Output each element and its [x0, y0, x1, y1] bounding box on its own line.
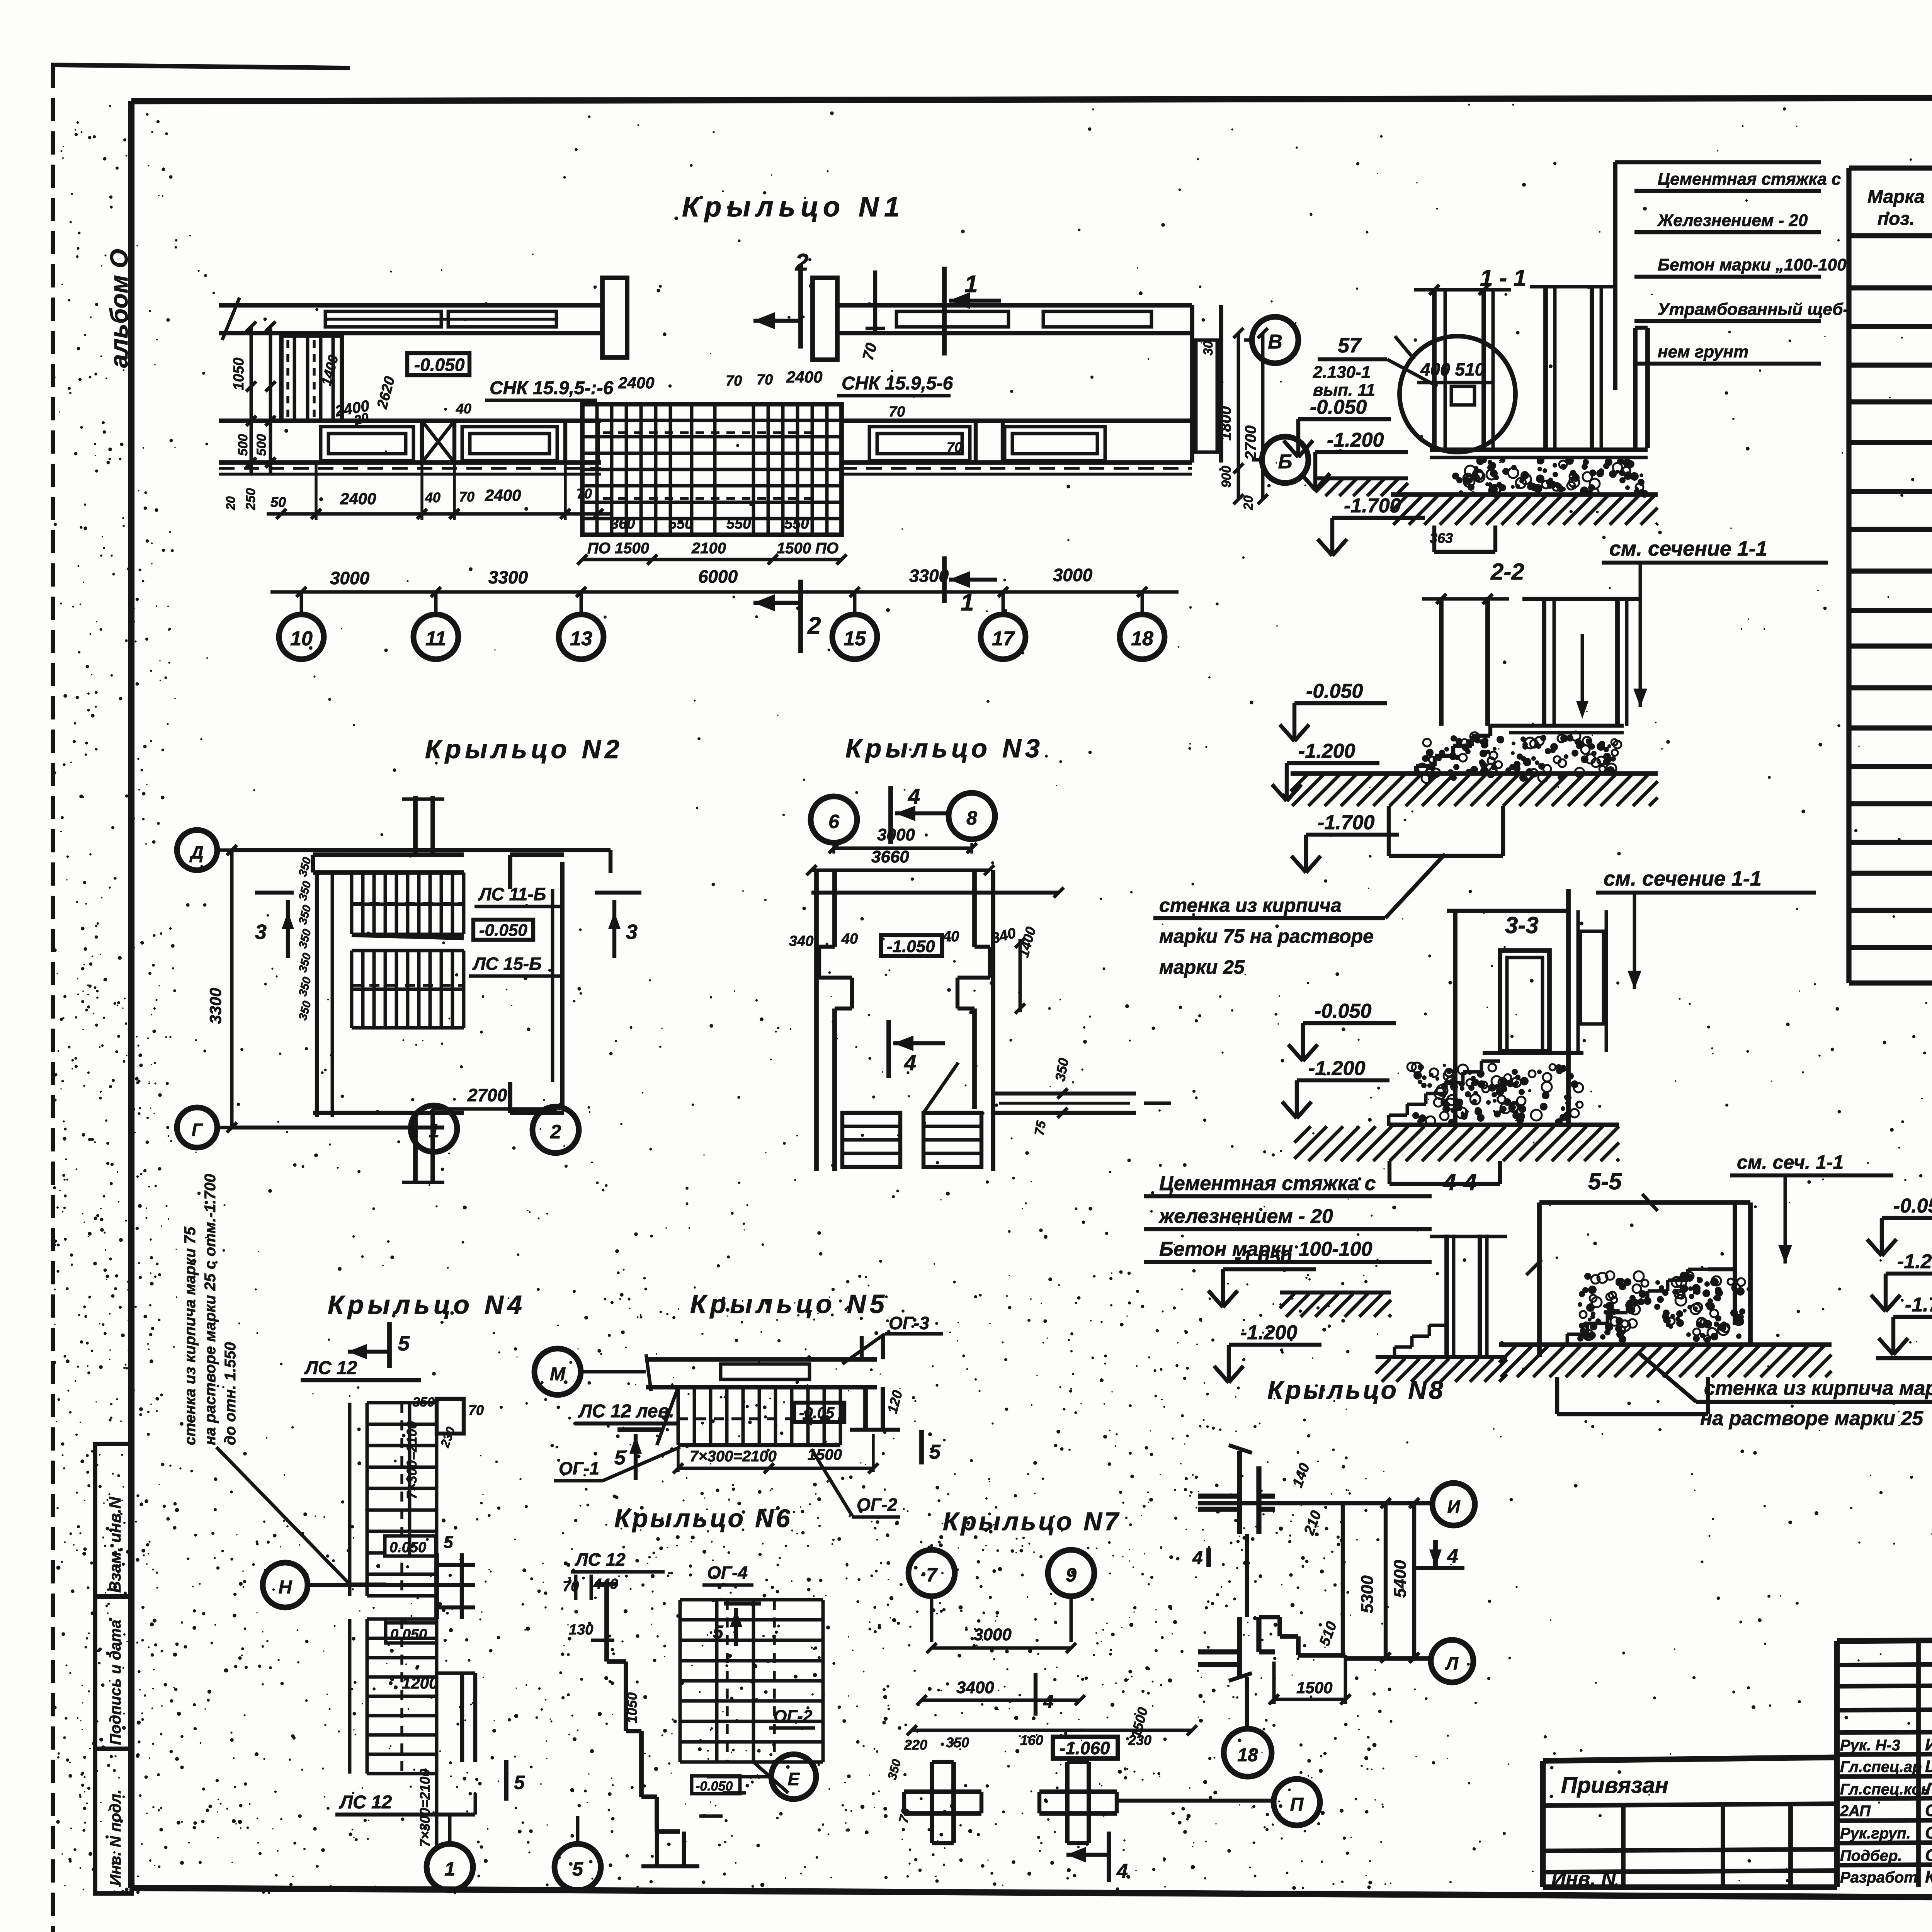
section 4-4 elevation -1.050	[1208, 1246, 1316, 1307]
N4 stair column lower	[350, 1619, 475, 1774]
label Крыльцо N4	[328, 1290, 526, 1320]
svg-text:поз.: поз.	[1878, 209, 1915, 229]
N2 wall stem top	[402, 796, 444, 855]
N1 section mark 1 bottom	[944, 556, 997, 616]
N6 stair block	[680, 1600, 823, 1762]
svg-text:350: 350	[296, 1000, 314, 1022]
svg-text:2: 2	[807, 612, 821, 639]
svg-text:8: 8	[966, 807, 977, 829]
N8 grid circle Л	[1431, 1640, 1473, 1682]
svg-text:70: 70	[889, 404, 905, 420]
N2 section mark 3 right	[595, 893, 641, 958]
N5 right end wall	[850, 1387, 905, 1430]
svg-text:-0.050: -0.050	[1315, 1000, 1372, 1022]
N1 central stair block	[582, 404, 842, 535]
svg-text:до отн. 1.550: до отн. 1.550	[222, 1342, 239, 1445]
svg-text:3000: 3000	[974, 1625, 1012, 1644]
N3 dim 3000	[829, 825, 977, 854]
svg-text:350: 350	[413, 1395, 435, 1410]
svg-text:70: 70	[757, 372, 773, 388]
N6 label ОГ-2 and leader	[753, 1707, 815, 1793]
N1 right end wall	[1192, 305, 1221, 463]
section 4-4 hatch stub	[1280, 1293, 1391, 1317]
svg-text:3400: 3400	[956, 1678, 994, 1697]
svg-text:1: 1	[964, 271, 978, 298]
section 5-5 foundation box	[1557, 1377, 1708, 1414]
section 1-1 foundation box and 363	[1430, 526, 1495, 552]
svg-text:17: 17	[992, 628, 1015, 650]
N2 bottom dim 2700	[429, 1085, 561, 1114]
N3 right wall	[957, 870, 993, 1171]
svg-text:-1.050: -1.050	[887, 937, 935, 956]
section 2-2 left wall	[1422, 594, 1509, 726]
svg-text:11: 11	[425, 628, 446, 650]
N8 axis line to Л	[1345, 1656, 1429, 1661]
svg-text:3000: 3000	[877, 825, 915, 844]
N7 small dims	[885, 1732, 1151, 1825]
N7 dim 3400 with section 4	[917, 1673, 1085, 1716]
Привязан box	[1543, 1757, 1837, 1890]
svg-text:7: 7	[926, 1564, 938, 1586]
section 3-3 ground hatch	[1294, 1126, 1619, 1161]
section 3-3 elevation -1.200	[1282, 1057, 1389, 1118]
N5 section mark 5	[614, 1430, 663, 1480]
svg-text:2АП: 2АП	[1840, 1803, 1871, 1820]
svg-text:см. сеч. 1-1: см. сеч. 1-1	[1737, 1151, 1844, 1173]
N6 top label ЛС12	[563, 1549, 665, 1600]
N1 inner dims 2400/70	[333, 368, 962, 455]
svg-text:-0.050: -0.050	[414, 355, 465, 375]
section 1-1 left hatch stub	[1315, 478, 1408, 496]
svg-text:-0.050: -0.050	[479, 921, 527, 940]
svg-text:1200: 1200	[402, 1674, 438, 1692]
N4 grid circle 1 bottom	[427, 1816, 473, 1890]
N2 grid circle 2	[532, 1107, 579, 1153]
svg-text:13: 13	[570, 628, 592, 650]
cement screed note (top, 5 underlined lines)	[1615, 162, 1849, 390]
N5 grid circle М	[534, 1349, 646, 1395]
svg-text:120: 120	[884, 1388, 905, 1415]
N1 CHK labels	[485, 373, 953, 400]
N7 grid circle 7	[908, 1550, 955, 1642]
svg-text:Рук.груп.: Рук.груп.	[1840, 1825, 1911, 1842]
N1 section mark 2 bottom	[753, 580, 821, 653]
svg-text:Взам. инв.N: Взам. инв.N	[106, 1496, 124, 1593]
specification table header	[1867, 182, 1932, 233]
svg-text:4: 4	[908, 784, 920, 808]
svg-text:ОГ-3: ОГ-3	[889, 1313, 929, 1333]
brick wall note (right of N3)	[1153, 854, 1445, 978]
svg-text:Либгонан: Либгонан	[1924, 1779, 1932, 1798]
N6 bottom steps	[641, 1793, 746, 1866]
svg-text:70: 70	[459, 489, 474, 505]
svg-text:340: 340	[789, 933, 813, 949]
svg-text:Штейнберг: Штейнберг	[1925, 1757, 1932, 1776]
N1 top wall band left	[219, 298, 601, 340]
N7 grid circle 9	[1048, 1550, 1094, 1642]
svg-text:2.130-1: 2.130-1	[1313, 363, 1371, 382]
N8 section mark 4 left	[1192, 1548, 1209, 1568]
svg-text:363: 363	[1430, 530, 1453, 546]
svg-text:ОГ-4: ОГ-4	[707, 1563, 748, 1583]
svg-text:2400: 2400	[618, 374, 654, 392]
handwritten album note (rotated) at top-left margin	[105, 249, 133, 368]
see section note 2 (см. сечение 1-1)	[1596, 867, 1816, 989]
section 2-2 steps and concrete	[1414, 726, 1624, 783]
N5 stair grid horizontal	[657, 1387, 840, 1445]
section 3-3 elevation -0.050	[1288, 1000, 1396, 1061]
svg-text:9: 9	[1066, 1564, 1077, 1586]
N2 grid circle Г	[177, 1107, 232, 1148]
svg-text:ЛС 12: ЛС 12	[339, 1792, 392, 1813]
N8 section mark 4 right	[1414, 1540, 1464, 1568]
N1 section mark 2 top	[753, 249, 808, 349]
svg-text:7×300=2100: 7×300=2100	[404, 1421, 420, 1499]
N5 label ОГ-1	[554, 1447, 680, 1481]
N6 grid circle Е	[707, 1754, 816, 1799]
svg-text:СНК 15.9,5-:-6: СНК 15.9,5-:-6	[490, 378, 614, 398]
N2 right walls	[510, 850, 611, 1113]
svg-text:70: 70	[577, 486, 592, 502]
N1 bottom wall band right with openings	[842, 421, 1192, 474]
svg-text:Соган: Соган	[1925, 1801, 1932, 1820]
svg-text:нем грунт: нем грунт	[1658, 342, 1748, 361]
N1 left vertical dim chain	[224, 321, 276, 510]
svg-text:Бетон марки „100-100: Бетон марки „100-100	[1658, 255, 1847, 274]
svg-text:350: 350	[296, 856, 314, 878]
svg-text:2700: 2700	[467, 1085, 507, 1105]
N7 dim 3000	[927, 1625, 1076, 1653]
svg-text:1: 1	[444, 1858, 455, 1880]
section 1-1 slab and concrete	[1430, 450, 1648, 498]
svg-text:0.050: 0.050	[390, 1626, 427, 1643]
see section note 1 (см. сечение 1-1)	[1602, 537, 1828, 707]
svg-text:Б: Б	[1278, 451, 1293, 473]
svg-text:20: 20	[1241, 495, 1256, 510]
svg-text:5: 5	[398, 1332, 410, 1355]
svg-text:3660: 3660	[871, 847, 909, 866]
section 3-3 walls and door	[1447, 889, 1606, 1126]
N8 dim 1500	[1269, 1655, 1350, 1704]
svg-text:50: 50	[270, 494, 286, 510]
svg-text:Крыльцо N4: Крыльцо N4	[328, 1290, 526, 1320]
svg-text:5: 5	[929, 1441, 941, 1463]
brick wall note (under section 5-5)	[1638, 1352, 1932, 1430]
svg-text:Разработ: Разработ	[1840, 1869, 1918, 1886]
label Крыльцо N3	[845, 734, 1044, 763]
svg-text:Рук. Н-3: Рук. Н-3	[1840, 1737, 1900, 1754]
N8 rotated dim 510	[1316, 1619, 1340, 1648]
section 5-5 steps and concrete	[1499, 1269, 1832, 1345]
section 5-5 outline	[1526, 1194, 1750, 1357]
section 2-2 elevation -1.700	[1291, 811, 1399, 872]
svg-text:3: 3	[626, 920, 638, 944]
svg-text:3-3: 3-3	[1505, 912, 1539, 938]
N5 top wall band	[646, 1336, 883, 1391]
section 5-5 elevation -1.700	[1879, 1294, 1932, 1355]
N8 grid circle 18	[1224, 1729, 1272, 1777]
svg-text:15: 15	[844, 628, 866, 650]
N8 central axis vertical line	[1245, 1534, 1249, 1617]
svg-text:Подбер.: Подбер.	[1840, 1847, 1902, 1864]
svg-text:4: 4	[1116, 1860, 1128, 1883]
svg-text:2700: 2700	[1242, 425, 1259, 460]
section 1-1 right railing posts	[1530, 286, 1648, 450]
svg-text:500: 500	[236, 434, 250, 456]
svg-text:1050: 1050	[624, 1692, 640, 1723]
N8 grid circle И	[1432, 1483, 1475, 1526]
svg-text:2: 2	[795, 249, 808, 276]
N1 T-column left	[602, 278, 627, 357]
svg-text:альбом О: альбом О	[105, 249, 133, 368]
section 2-2 elevation -0.050	[1280, 680, 1387, 741]
svg-text:1500: 1500	[1296, 1679, 1332, 1697]
svg-text:марки 25: марки 25	[1159, 956, 1245, 978]
svg-text:210: 210	[1301, 1509, 1325, 1537]
N5 label ОГ-2 leader	[811, 1449, 900, 1517]
N1 grid circle В	[1244, 317, 1298, 363]
N5 bottom dims 7x300=2100 1500	[673, 1434, 878, 1473]
label Крыльцо N2	[425, 735, 623, 764]
svg-text:3000: 3000	[1053, 565, 1093, 585]
label Крыльцо N1	[682, 192, 905, 223]
svg-text:500: 500	[254, 434, 269, 456]
svg-text:ПО 1500: ПО 1500	[587, 540, 649, 557]
svg-text:Гл.спец.ар: Гл.спец.ар	[1840, 1759, 1922, 1776]
N2 labels ЛС11-Б -0.050 ЛС15-Б	[469, 884, 560, 976]
N8 rotated dims 140 210	[1289, 1461, 1325, 1537]
svg-text:350: 350	[885, 1758, 904, 1781]
svg-text:СНК 15.9,5-6: СНК 15.9,5-6	[842, 373, 953, 394]
N3 dims 340 40 40 340 1400	[789, 925, 1039, 1014]
N2 tread dims column	[296, 856, 314, 1022]
svg-text:Е: Е	[788, 1769, 800, 1789]
N7 connecting line to П	[1117, 1799, 1274, 1803]
svg-text:550: 550	[726, 516, 751, 532]
N8 vertical dim lines	[1343, 1498, 1419, 1663]
svg-text:стенка из кирпича: стенка из кирпича	[1159, 895, 1342, 916]
svg-text:В: В	[1268, 331, 1282, 353]
svg-text:550: 550	[668, 516, 693, 532]
N1 left stair block	[281, 335, 398, 428]
section 2-2 elevation -1.200	[1272, 740, 1379, 801]
svg-text:Инв. N: Инв. N	[1551, 1868, 1616, 1890]
label Крыльцо N5	[690, 1289, 888, 1319]
N1 bottom dim chain small	[267, 463, 612, 520]
svg-text:ЛС 12 лев.: ЛС 12 лев.	[578, 1401, 674, 1422]
svg-text:350: 350	[296, 976, 314, 998]
svg-text:5: 5	[514, 1772, 525, 1793]
svg-text:2-2: 2-2	[1490, 559, 1524, 585]
svg-text:5400: 5400	[1391, 1560, 1410, 1598]
N4 grid circle Н	[263, 1563, 308, 1607]
N4 mid cross junction	[308, 1533, 475, 1619]
N4 stair column upper	[350, 1395, 484, 1596]
N3 grid circle 8	[949, 793, 995, 839]
left margin stamp box Инв.N подл.	[95, 1749, 132, 1893]
label 2-2	[1490, 559, 1524, 585]
svg-text:ЛС 11-Б: ЛС 11-Б	[478, 884, 546, 904]
svg-text:2400: 2400	[340, 490, 376, 508]
N1 stair bottom dim ПО 1500 2100 1500	[577, 540, 847, 565]
svg-text:0.050: 0.050	[389, 1539, 426, 1556]
left margin stamp box Взам.инв.N	[95, 1444, 132, 1597]
svg-text:40: 40	[942, 929, 959, 945]
N3 top wall	[811, 888, 1064, 898]
svg-text:2400: 2400	[485, 486, 521, 504]
svg-text:4: 4	[1192, 1548, 1203, 1568]
svg-text:-1.200: -1.200	[1240, 1321, 1298, 1344]
N5 ograждение ОГ-3 label	[842, 1313, 943, 1364]
N3 grid circle 6	[811, 796, 857, 843]
title block outer frame	[1837, 1636, 1932, 1887]
svg-text:ЛС 15-Б: ЛС 15-Б	[472, 954, 542, 974]
label 4-4	[1443, 1169, 1477, 1195]
svg-text:3300: 3300	[488, 567, 528, 587]
svg-text:-1.200: -1.200	[1298, 740, 1355, 762]
svg-text:7×300=2100: 7×300=2100	[690, 1448, 777, 1465]
N8 bottom cross column	[1198, 1617, 1345, 1681]
section 1-1 left wall	[1414, 285, 1511, 450]
label Крыльцо N7	[943, 1507, 1121, 1536]
specification table grid	[1849, 168, 1932, 983]
left margin stamp box Подпись и дата	[95, 1597, 132, 1749]
svg-text:П: П	[1290, 1794, 1304, 1815]
svg-text:Подпись и дата: Подпись и дата	[107, 1620, 124, 1745]
N7 section mark 4 bottom	[1066, 1832, 1128, 1883]
svg-text:360: 360	[611, 516, 635, 532]
N8 top cross column	[1198, 1445, 1275, 1534]
section 2-2 foundation box	[1389, 806, 1503, 856]
N8 leader to circle 18	[1245, 1677, 1249, 1728]
section 2-2 right railing posts	[1522, 599, 1642, 726]
cement screed note (middle, 3 underlined lines)	[1144, 1172, 1432, 1262]
svg-text:3: 3	[255, 920, 267, 944]
N2 grid circle Д	[177, 830, 232, 870]
N4 left dim chain rotated	[404, 1403, 437, 1847]
N4 section mark 5 bottom	[506, 1760, 525, 1801]
N6 left zigzag wall	[569, 1584, 680, 1832]
N6 rotated dim 1050	[624, 1692, 640, 1723]
svg-text:Цементная стяжка с: Цементная стяжка с	[1658, 170, 1841, 189]
N4 bottom label ЛС12	[335, 1792, 475, 1815]
N4 label ЛС12 top	[301, 1358, 421, 1380]
svg-text:на растворе марки 25 с отм.-1.: на растворе марки 25 с отм.-1.700	[202, 1174, 219, 1445]
svg-text:6000: 6000	[698, 566, 738, 587]
svg-text:7×300=2100: 7×300=2100	[417, 1769, 433, 1847]
label 3-3	[1505, 912, 1539, 938]
N7 left cross column	[904, 1762, 981, 1843]
svg-text:70: 70	[726, 373, 742, 389]
svg-text:Инв. N подл.: Инв. N подл.	[107, 1789, 124, 1886]
svg-text:350: 350	[296, 904, 314, 926]
svg-text:Крыльцо N3: Крыльцо N3	[845, 734, 1044, 763]
svg-text:40: 40	[456, 401, 471, 417]
N7 grid circle П	[1274, 1779, 1320, 1825]
N3 bottom stair treads	[842, 1063, 981, 1167]
svg-text:ЛС 12: ЛС 12	[575, 1549, 626, 1570]
svg-text:2620: 2620	[374, 375, 398, 411]
svg-text:ОГ-2: ОГ-2	[774, 1707, 813, 1726]
svg-text:230: 230	[437, 1425, 458, 1450]
svg-text:Гл.спец.кон: Гл.спец.кон	[1840, 1781, 1930, 1798]
svg-text:на растворе марки 25: на растворе марки 25	[1700, 1407, 1923, 1430]
svg-text:4: 4	[1043, 1692, 1054, 1712]
svg-text:18: 18	[1237, 1745, 1258, 1765]
section 4-4 steps	[1376, 1325, 1507, 1358]
svg-text:350: 350	[296, 880, 314, 902]
svg-text:железнением - 20: железнением - 20	[1158, 1205, 1333, 1228]
svg-text:1500 ПО: 1500 ПО	[777, 540, 838, 557]
svg-text:550: 550	[784, 516, 809, 532]
svg-text:-1.700: -1.700	[1905, 1294, 1932, 1316]
svg-text:18: 18	[1131, 628, 1153, 650]
N4 section mark 5 top	[348, 1322, 410, 1368]
svg-text:5300: 5300	[1358, 1575, 1377, 1613]
section 4-4 ground hatch	[1376, 1359, 1507, 1382]
svg-text:Овчинников: Овчинников	[1925, 1846, 1932, 1865]
svg-text:70: 70	[468, 1402, 484, 1418]
svg-text:75: 75	[1032, 1119, 1049, 1136]
N1 top wall band right	[837, 305, 1192, 333]
N2 section mark 3 left	[255, 893, 294, 958]
svg-text:-1.200: -1.200	[1308, 1057, 1366, 1080]
svg-text:см. сечение 1-1: см. сечение 1-1	[1609, 537, 1767, 560]
svg-text:4-4: 4-4	[1443, 1169, 1477, 1195]
svg-text:20: 20	[224, 496, 238, 510]
svg-text:Н: Н	[279, 1577, 293, 1598]
N7 wide dim box	[907, 1706, 1197, 1740]
N1 elevation box -0.050	[407, 353, 469, 375]
svg-text:70: 70	[947, 439, 962, 455]
N6 label ОГ-4	[702, 1563, 753, 1585]
N2 grid circle 1	[411, 1105, 457, 1152]
svg-text:140: 140	[1289, 1461, 1313, 1490]
left page edge dashed line	[51, 65, 350, 1932]
N3 elevation box -1.050	[881, 935, 942, 956]
svg-text:350: 350	[1052, 1057, 1072, 1082]
N5 label ЛС 12 лев	[575, 1401, 680, 1423]
svg-text:Утрамбованный щеб-: Утрамбованный щеб-	[1658, 300, 1849, 319]
section 4-4 walls	[1430, 1235, 1507, 1357]
svg-text:40: 40	[425, 490, 440, 505]
svg-text:5: 5	[614, 1447, 626, 1469]
svg-text:Д: Д	[189, 842, 203, 862]
svg-text:30: 30	[1201, 341, 1216, 355]
section 3-3 porch steps and concrete	[1389, 1053, 1619, 1126]
svg-text:стенка из кирпича марки 75: стенка из кирпича марки 75	[1704, 1377, 1932, 1400]
svg-text:6: 6	[828, 811, 840, 832]
svg-text:4: 4	[904, 1051, 916, 1075]
svg-text:Крыльцо N8: Крыльцо N8	[1267, 1376, 1446, 1404]
svg-text:М: М	[550, 1364, 566, 1384]
svg-text:-0.050: -0.050	[1306, 680, 1363, 702]
svg-text:5-5: 5-5	[1588, 1168, 1622, 1194]
N5 section mark 5 right	[922, 1430, 941, 1464]
svg-text:1: 1	[429, 1120, 439, 1141]
section 1-1 detail circle 400 510	[1395, 336, 1515, 452]
N1 stair step dims 360 550 550 550	[611, 516, 809, 532]
section 3-3 foundation box	[1389, 1161, 1500, 1184]
svg-text:см. сечение 1-1: см. сечение 1-1	[1604, 867, 1762, 890]
rotated brick wall note (left margin)	[182, 1174, 386, 1584]
svg-text:-1.700: -1.700	[1344, 495, 1401, 517]
N1 T-column right	[813, 278, 837, 360]
N2 wall stem bottom	[402, 1113, 444, 1182]
N2 bottom wall	[232, 1113, 464, 1128]
svg-text:2100: 2100	[691, 540, 726, 557]
label Крыльцо N8	[1267, 1376, 1446, 1404]
